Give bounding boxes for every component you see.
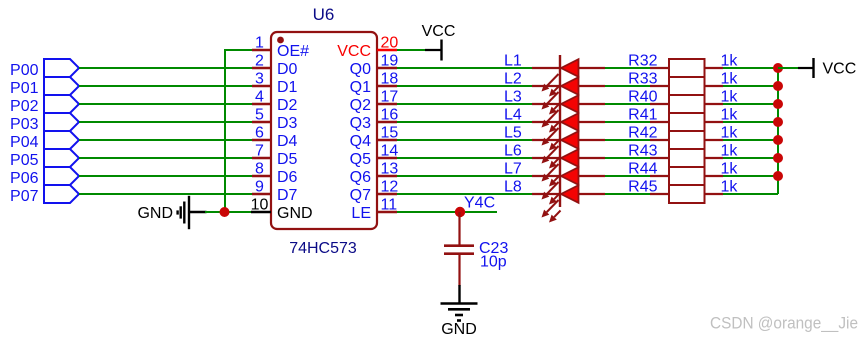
svg-text:14: 14 xyxy=(381,143,399,160)
svg-text:9: 9 xyxy=(255,179,264,196)
svg-text:L5: L5 xyxy=(504,125,522,142)
LED L8 emission arrow xyxy=(542,200,559,218)
junction dot VCC bus row 2 xyxy=(773,81,783,91)
svg-text:CSDN @orange__Jie: CSDN @orange__Jie xyxy=(710,315,858,333)
pin 15 number xyxy=(381,125,399,142)
svg-text:L7: L7 xyxy=(504,161,522,178)
resistor R41 body xyxy=(669,113,705,131)
net label R45 xyxy=(628,179,657,196)
svg-text:Q1: Q1 xyxy=(350,79,371,96)
svg-text:74HC573: 74HC573 xyxy=(289,240,357,257)
resistor R40 value 1k xyxy=(721,89,739,106)
wire R41 to VCC bus xyxy=(705,121,779,123)
pin 12 name Q7 xyxy=(350,187,371,204)
svg-text:16: 16 xyxy=(381,107,399,124)
pin 10 name GND xyxy=(277,205,313,222)
watermark text xyxy=(710,315,858,333)
svg-text:L8: L8 xyxy=(504,179,522,196)
pin 3 name D1 xyxy=(277,79,298,96)
pin 6 name D4 xyxy=(277,133,298,150)
wire P06 to D6 xyxy=(79,175,252,177)
pin 8 number xyxy=(255,161,264,178)
pin 12 number xyxy=(381,179,399,196)
resistor R44 value 1k xyxy=(721,161,739,178)
net label R33 xyxy=(628,71,657,88)
junction dot VCC bus row 5 xyxy=(773,135,783,145)
pin 7 number xyxy=(255,143,264,160)
pin 14 number xyxy=(381,143,399,160)
pin 20 number xyxy=(381,35,399,52)
pin 20 name VCC xyxy=(337,43,371,60)
svg-text:R41: R41 xyxy=(628,107,657,124)
wire R43 to VCC bus xyxy=(705,157,779,159)
svg-text:8: 8 xyxy=(255,161,264,178)
svg-text:13: 13 xyxy=(381,161,399,178)
capacitor C23 value 10p xyxy=(480,254,507,271)
svg-text:P05: P05 xyxy=(10,152,39,169)
svg-text:Q3: Q3 xyxy=(350,115,371,132)
svg-text:11: 11 xyxy=(381,197,398,214)
svg-text:1k: 1k xyxy=(721,161,739,178)
power VCC (pin 20) xyxy=(422,23,456,61)
svg-text:D0: D0 xyxy=(277,61,298,78)
LED L1 emission arrow xyxy=(549,85,561,97)
resistor R42 value 1k xyxy=(721,125,739,142)
svg-text:D3: D3 xyxy=(277,115,298,132)
pin 11 name LE xyxy=(351,205,371,222)
pin 6 stub xyxy=(252,139,271,141)
pin 4 name D2 xyxy=(277,97,298,114)
wire P01 to D1 xyxy=(79,85,252,87)
port connector P06 xyxy=(10,167,79,187)
wire R33 to VCC bus xyxy=(705,85,779,87)
svg-text:D5: D5 xyxy=(277,151,298,168)
pin 12 stub xyxy=(377,193,397,195)
capacitor C23 xyxy=(444,212,474,286)
wire VCC bus vertical xyxy=(777,67,779,194)
pin 9 name D7 xyxy=(277,187,298,204)
resistor R43 value 1k xyxy=(721,143,739,160)
pin 17 name Q2 xyxy=(350,97,371,114)
pin 18 stub xyxy=(377,85,397,87)
pin 7 name D5 xyxy=(277,151,298,168)
svg-text:P02: P02 xyxy=(10,98,39,115)
LED L8 triangle xyxy=(561,185,579,203)
wire LED L5 to R42 xyxy=(579,139,670,141)
capacitor C23 refdes xyxy=(479,240,508,257)
svg-text:R33: R33 xyxy=(628,71,657,88)
junction dot VCC bus row 7 xyxy=(773,171,783,181)
svg-text:R32: R32 xyxy=(628,53,657,70)
svg-text:R45: R45 xyxy=(628,179,657,196)
pin 17 number xyxy=(381,89,399,106)
svg-text:D2: D2 xyxy=(277,97,298,114)
pin 2 stub xyxy=(252,67,271,69)
svg-text:R43: R43 xyxy=(628,143,657,160)
wire Q7 to LED L8 xyxy=(397,193,532,195)
port connector P05 xyxy=(10,149,79,169)
wire Q1 to LED L2 xyxy=(397,85,532,87)
pin 16 stub xyxy=(377,121,397,123)
pin 19 stub xyxy=(377,67,397,69)
svg-text:R42: R42 xyxy=(628,125,657,142)
pin 7 stub xyxy=(252,157,271,159)
svg-text:U6: U6 xyxy=(313,5,335,24)
pin 17 stub xyxy=(377,103,397,105)
resistor R32 body xyxy=(669,59,705,77)
svg-text:LE: LE xyxy=(351,205,371,222)
pin 9 number xyxy=(255,179,264,196)
svg-text:10: 10 xyxy=(251,197,269,214)
resistor R41 value 1k xyxy=(721,107,739,124)
pin 1 marker dot xyxy=(277,37,284,44)
wire P02 to D2 xyxy=(79,103,252,105)
svg-text:10p: 10p xyxy=(480,254,507,271)
junction dot LE/C23 xyxy=(455,207,465,217)
pin 19 number xyxy=(381,53,399,70)
pin 8 name D6 xyxy=(277,169,298,186)
resistor R32 value 1k xyxy=(721,53,739,70)
LED L7 emission arrow xyxy=(542,182,559,200)
pin 13 name Q6 xyxy=(350,169,371,186)
net label R43 xyxy=(628,143,657,160)
svg-text:D4: D4 xyxy=(277,133,298,150)
pin 10 stub (GND, black) xyxy=(251,211,271,213)
port connector P07 xyxy=(10,185,79,205)
wire LED L6 to R43 xyxy=(579,157,670,159)
svg-text:L2: L2 xyxy=(504,71,522,88)
wire R44 to VCC bus xyxy=(705,175,779,177)
wire pin20 to VCC xyxy=(397,49,425,51)
pin 8 stub xyxy=(252,175,271,177)
pin 3 number xyxy=(255,71,264,88)
pin 18 number xyxy=(381,71,399,88)
svg-text:L4: L4 xyxy=(504,107,522,124)
pin 16 name Q3 xyxy=(350,115,371,132)
svg-text:1k: 1k xyxy=(721,71,739,88)
svg-text:P07: P07 xyxy=(10,188,39,205)
svg-text:1k: 1k xyxy=(721,53,739,70)
svg-text:Q4: Q4 xyxy=(350,133,371,150)
LED L2 emission arrow xyxy=(542,92,559,110)
LED L4 anode lead xyxy=(532,121,559,123)
svg-text:Q0: Q0 xyxy=(350,61,371,78)
net label L6 xyxy=(504,143,522,160)
port connector P00 xyxy=(10,59,79,79)
junction dot VCC bus row 1 xyxy=(773,63,783,73)
svg-text:7: 7 xyxy=(255,143,264,160)
svg-text:L3: L3 xyxy=(504,89,522,106)
svg-text:GND: GND xyxy=(277,205,313,222)
svg-text:1k: 1k xyxy=(721,143,739,160)
svg-text:L1: L1 xyxy=(504,53,522,70)
svg-text:3: 3 xyxy=(255,71,264,88)
svg-text:1k: 1k xyxy=(721,125,739,142)
wire P07 to D7 xyxy=(79,193,252,195)
pin 15 name Q4 xyxy=(350,133,371,150)
wire GND net to pin 10 xyxy=(205,211,251,213)
svg-text:1k: 1k xyxy=(721,89,739,106)
LED cathode bar line xyxy=(559,55,561,207)
LED L2 emission arrow xyxy=(549,103,561,115)
LED L3 anode lead xyxy=(532,103,559,105)
pin 3 stub xyxy=(252,85,271,87)
pin 1 stub xyxy=(252,49,271,51)
svg-text:GND: GND xyxy=(137,205,173,222)
LED L2 anode lead xyxy=(532,85,559,87)
wire LED L8 to R45 xyxy=(579,193,670,195)
LED L3 emission arrow xyxy=(542,110,559,128)
svg-text:P01: P01 xyxy=(10,80,39,97)
wire R45 to VCC bus xyxy=(705,193,779,195)
wire LED L1 to R32 xyxy=(579,67,670,69)
net label L8 xyxy=(504,179,522,196)
wire LE net xyxy=(397,211,497,213)
op IC U6 body xyxy=(271,32,377,229)
pin 2 name D0 xyxy=(277,61,298,78)
power VCC (resistor bus) xyxy=(778,58,856,78)
LED L4 triangle xyxy=(561,113,579,131)
resistor R42 body xyxy=(669,131,705,149)
wire Q5 to LED L6 xyxy=(397,157,532,159)
pin 4 number xyxy=(255,89,264,106)
net label R42 xyxy=(628,125,657,142)
LED L8 emission arrow xyxy=(549,211,561,223)
LED L1 triangle xyxy=(561,59,579,77)
LED L3 triangle xyxy=(561,95,579,113)
svg-text:P03: P03 xyxy=(10,116,39,133)
net label L3 xyxy=(504,89,522,106)
svg-text:6: 6 xyxy=(255,125,264,142)
net label L5 xyxy=(504,125,522,142)
pin 5 name D3 xyxy=(277,115,298,132)
svg-text:Q6: Q6 xyxy=(350,169,371,186)
svg-text:L6: L6 xyxy=(504,143,522,160)
svg-text:Q5: Q5 xyxy=(350,151,371,168)
resistor R43 body xyxy=(669,149,705,167)
svg-text:R44: R44 xyxy=(628,161,657,178)
wire Q3 to LED L4 xyxy=(397,121,532,123)
pin 11 number xyxy=(381,197,398,214)
wire LED L2 to R33 xyxy=(579,85,670,87)
svg-text:Q2: Q2 xyxy=(350,97,371,114)
net label R44 xyxy=(628,161,657,178)
resistor R33 body xyxy=(669,77,705,95)
port connector P03 xyxy=(10,113,79,133)
ground GND (left of pin 10) xyxy=(137,196,206,229)
wire Q2 to LED L3 xyxy=(397,103,532,105)
pin 15 stub xyxy=(377,139,397,141)
IC U6 refdes label xyxy=(313,5,335,24)
svg-text:D1: D1 xyxy=(277,79,298,96)
svg-text:12: 12 xyxy=(381,179,399,196)
svg-text:VCC: VCC xyxy=(422,23,456,40)
svg-text:2: 2 xyxy=(255,53,264,70)
wire P03 to D3 xyxy=(79,121,252,123)
ground GND (below C23) xyxy=(441,285,478,338)
wire P05 to D5 xyxy=(79,157,252,159)
resistor R44 body xyxy=(669,167,705,185)
pin 5 number xyxy=(255,107,264,124)
junction dot VCC bus row 4 xyxy=(773,117,783,127)
wire R42 to VCC bus xyxy=(705,139,779,141)
svg-text:1k: 1k xyxy=(721,107,739,124)
svg-text:20: 20 xyxy=(381,35,399,52)
LED L4 emission arrow xyxy=(549,139,561,151)
net label R41 xyxy=(628,107,657,124)
LED L3 emission arrow xyxy=(549,121,561,133)
pin 11 stub xyxy=(377,211,397,213)
wire LED L4 to R41 xyxy=(579,121,670,123)
pin 13 number xyxy=(381,161,399,178)
pin 9 stub xyxy=(252,193,271,195)
pin 10 number xyxy=(251,197,269,214)
pin 19 name Q0 xyxy=(350,61,371,78)
pin 1 name OE# xyxy=(277,43,309,60)
port connector P02 xyxy=(10,95,79,115)
LED L6 anode lead xyxy=(532,157,559,159)
svg-text:P00: P00 xyxy=(10,62,39,79)
LED L8 anode lead xyxy=(532,193,559,195)
svg-text:1: 1 xyxy=(255,35,264,52)
LED L7 triangle xyxy=(561,167,579,185)
LED L6 emission arrow xyxy=(542,164,559,182)
wire R40 to VCC bus xyxy=(705,103,779,105)
LED L4 emission arrow xyxy=(542,128,559,146)
wire OE# net vertical to GND xyxy=(224,49,226,212)
LED L1 emission arrow xyxy=(542,74,559,92)
LED L7 emission arrow xyxy=(549,193,561,205)
svg-text:4: 4 xyxy=(255,89,264,106)
wire LED L7 to R44 xyxy=(579,175,670,177)
pin 2 number xyxy=(255,53,264,70)
port connector P01 xyxy=(10,77,79,97)
junction dot VCC bus row 6 xyxy=(773,153,783,163)
wire LED L3 to R40 xyxy=(579,103,670,105)
net label Y4C xyxy=(464,195,495,212)
svg-text:D7: D7 xyxy=(277,187,298,204)
net label R32 xyxy=(628,53,657,70)
wire R32 to VCC bus xyxy=(705,67,779,69)
net label L4 xyxy=(504,107,522,124)
resistor R45 body xyxy=(669,185,705,203)
LED L6 emission arrow xyxy=(549,175,561,187)
LED L1 anode lead xyxy=(532,67,559,69)
wire Q6 to LED L7 xyxy=(397,175,532,177)
svg-text:17: 17 xyxy=(381,89,399,106)
pin 18 name Q1 xyxy=(350,79,371,96)
IC U6 part value 74HC573 xyxy=(289,240,357,257)
port connector P04 xyxy=(10,131,79,151)
svg-text:P04: P04 xyxy=(10,134,39,151)
pin 5 stub xyxy=(252,121,271,123)
wire P00 to D0 xyxy=(79,67,252,69)
pin 16 number xyxy=(381,107,399,124)
svg-text:5: 5 xyxy=(255,107,264,124)
LED L5 emission arrow xyxy=(542,146,559,164)
svg-text:VCC: VCC xyxy=(823,61,857,78)
net label L1 xyxy=(504,53,522,70)
svg-text:R40: R40 xyxy=(628,89,657,106)
svg-text:Q7: Q7 xyxy=(350,187,371,204)
net label R40 xyxy=(628,89,657,106)
LED L5 anode lead xyxy=(532,139,559,141)
pin 14 stub xyxy=(377,157,397,159)
wire Q0 to LED L1 xyxy=(397,67,532,69)
wire Q4 to LED L5 xyxy=(397,139,532,141)
svg-text:18: 18 xyxy=(381,71,399,88)
resistor R40 body xyxy=(669,95,705,113)
pin 14 name Q5 xyxy=(350,151,371,168)
pin 4 stub xyxy=(252,103,271,105)
pin 13 stub xyxy=(377,175,397,177)
svg-text:19: 19 xyxy=(381,53,399,70)
pin 6 number xyxy=(255,125,264,142)
svg-text:Y4C: Y4C xyxy=(464,195,495,212)
svg-text:OE#: OE# xyxy=(277,43,309,60)
junction dot VCC bus row 3 xyxy=(773,99,783,109)
pin 1 number xyxy=(255,35,264,52)
svg-text:GND: GND xyxy=(441,321,477,338)
LED L2 triangle xyxy=(561,77,579,95)
svg-text:1k: 1k xyxy=(721,179,739,196)
resistor R45 value 1k xyxy=(721,179,739,196)
pin 20 stub (VCC, red) xyxy=(377,49,397,51)
LED L7 anode lead xyxy=(532,175,559,177)
net label L7 xyxy=(504,161,522,178)
svg-text:D6: D6 xyxy=(277,169,298,186)
resistor R33 value 1k xyxy=(721,71,739,88)
LED L6 triangle xyxy=(561,149,579,167)
wire P04 to D4 xyxy=(79,139,252,141)
svg-text:VCC: VCC xyxy=(337,43,371,60)
wire OE# net pin1 horizontal xyxy=(225,49,253,51)
svg-text:15: 15 xyxy=(381,125,399,142)
LED L5 triangle xyxy=(561,131,579,149)
LED L5 emission arrow xyxy=(549,157,561,169)
net label L2 xyxy=(504,71,522,88)
svg-text:P06: P06 xyxy=(10,170,39,187)
junction dot GND/OE# node xyxy=(220,207,230,217)
